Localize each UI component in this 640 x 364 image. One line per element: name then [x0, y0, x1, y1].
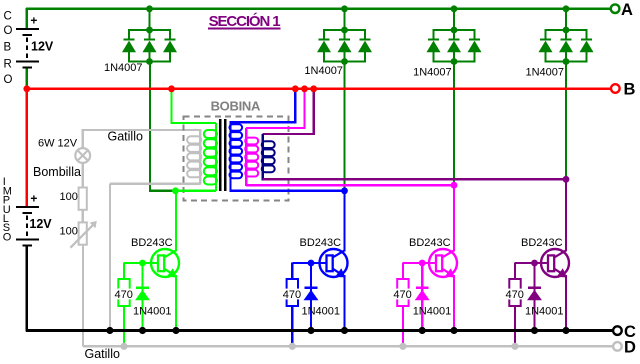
wire diode group D2 down to blue collector node [343, 62, 345, 191]
navy secondary winding [262, 134, 275, 180]
svg-text:1N4007: 1N4007 [104, 62, 143, 74]
battery COBRO 12V plates [16, 28, 39, 30]
label 470 of Q1 (green) [114, 289, 135, 300]
wire blue winding bottom to T2 collector [231, 190, 345, 192]
node base junction of Q3 (magenta) [419, 260, 426, 267]
wire Gatillo horizontal (gray, node Gatillo) [83, 129, 201, 131]
wire diode group D4 down to purple collector node [565, 62, 567, 180]
diode 1N4001 of Q3 (magenta) [415, 263, 430, 331]
wire base of Q4 (purple) [515, 262, 549, 264]
wire battery IMPULSO - to bus C (black) [26, 246, 28, 331]
wire node B to battery IMPULSO + (red) [26, 89, 28, 207]
wire down to T3 collector [453, 185, 455, 251]
svg-text:1N4001: 1N4001 [525, 306, 564, 318]
svg-text:+: + [30, 192, 37, 206]
lamp Bombilla 6W 12V [75, 148, 90, 163]
wire gray winding bottom to bus C [110, 182, 200, 184]
node base junction of Q1 (green) [139, 260, 146, 267]
svg-text:470: 470 [393, 289, 411, 301]
resistor 470 of Q4 (purple) [509, 263, 520, 347]
green primary winding [204, 123, 217, 191]
svg-text:1N4001: 1N4001 [302, 306, 341, 318]
transistor Q4 (purple) BD243C [541, 249, 569, 278]
battery IMPULSO 12V plates [16, 206, 39, 208]
svg-text:1N4001: 1N4001 [413, 306, 452, 318]
diode group D1 (3x 1N4007) [122, 9, 177, 65]
transformer core bars [219, 119, 227, 191]
svg-text:Gatillo: Gatillo [108, 130, 143, 144]
svg-text:O: O [4, 74, 13, 86]
terminal D [613, 342, 622, 351]
wire navy winding bottom to T4 collector (purple) [263, 178, 566, 180]
svg-text:6W 12V: 6W 12V [38, 137, 78, 149]
terminal C [613, 326, 622, 335]
wire green winding bottom to node E [176, 190, 217, 192]
wire down to T4 collector (purple) [565, 179, 567, 251]
svg-text:100: 100 [60, 226, 78, 238]
svg-text:+: + [30, 14, 37, 28]
node T4 collector junction [563, 176, 570, 183]
wire potentiometer to bus D (gray) [82, 245, 84, 347]
blue secondary winding [230, 122, 243, 192]
resistor R1 100 (gray) [79, 188, 87, 210]
wire down to T2 collector [343, 191, 345, 252]
node E (green collector junction) [172, 187, 179, 194]
node base junction of Q2 (blue) [308, 260, 315, 267]
node dots on bus B [23, 85, 30, 92]
diode group D3 (3x 1N4007) [427, 9, 482, 65]
wire Gatillo horizontal over crossing (gray) [144, 129, 157, 131]
wire lamp top to Gatillo line (gray) [82, 129, 84, 149]
diode 1N4001 of Q2 (blue) [304, 263, 319, 331]
transistor Q3 (magenta) BD243C [429, 249, 457, 278]
wire magenta winding bottom to T3 collector [246, 184, 454, 186]
svg-text:1N4001: 1N4001 [133, 306, 172, 318]
diode 1N4001 of Q4 (purple) [527, 263, 542, 331]
transistor Q1 (green) BD243C [151, 249, 179, 278]
wire bus B (node B, red) [26, 87, 611, 90]
node T3 collector junction [451, 182, 458, 189]
diode group D2 (3x 1N4007) [317, 9, 372, 65]
svg-text:100: 100 [60, 191, 78, 203]
potentiometer R2 100 (gray) [70, 221, 96, 248]
wire node B to blue winding top [294, 89, 296, 124]
resistor 470 of Q3 (magenta) [397, 263, 408, 347]
svg-text:12V: 12V [31, 40, 54, 54]
svg-text:BD243C: BD243C [131, 237, 173, 249]
svg-text:O: O [4, 25, 13, 37]
wire emitter of Q4 (purple) to bus C [565, 275, 567, 331]
svg-text:1N4007: 1N4007 [304, 65, 343, 77]
svg-text:BD243C: BD243C [521, 237, 563, 249]
wire base of Q3 (magenta) [403, 262, 437, 264]
svg-text:BOBINA: BOBINA [211, 99, 261, 114]
gray trigger winding [187, 129, 201, 185]
resistor 470 of Q1 (green) [118, 263, 129, 347]
svg-text:BD243C: BD243C [300, 237, 342, 249]
svg-text:BD243C: BD243C [409, 237, 451, 249]
wire bus D (node D / Gatillo, gray) [83, 345, 613, 347]
svg-text:470: 470 [283, 289, 301, 301]
svg-text:12V: 12V [29, 217, 52, 231]
node base junction of Q4 (purple) [531, 260, 538, 267]
wire battery COBRO - to bus B (dark green) [26, 69, 28, 89]
label 470 of Q2 (blue) [282, 289, 303, 300]
svg-text:1N4007: 1N4007 [413, 67, 452, 79]
wire R1 to potentiometer (gray) [82, 210, 84, 223]
svg-text:470: 470 [506, 289, 524, 301]
terminal B [611, 84, 620, 93]
svg-text:B: B [624, 81, 636, 99]
dashed box BOBINA [184, 116, 289, 200]
svg-text:B: B [4, 42, 12, 54]
wire base of Q2 (blue) [292, 262, 327, 264]
terminal A [611, 4, 620, 13]
wire lamp to resistor R1 (gray) [82, 163, 84, 189]
diode 1N4001 of Q1 (green) [135, 263, 150, 331]
node dots on bus D [120, 343, 127, 350]
wire emitter of Q1 (green) to bus C [175, 275, 177, 331]
svg-text:C: C [4, 11, 12, 23]
wire node B to green winding top (bright green) [170, 89, 172, 124]
svg-text:O: O [3, 231, 12, 243]
svg-text:Bombilla: Bombilla [33, 165, 81, 179]
svg-text:Gatillo: Gatillo [85, 347, 120, 361]
label SECCION 1 [208, 12, 281, 30]
wire bus C (node C, black) [26, 329, 613, 332]
wire bus A down to battery COBRO + [26, 8, 28, 29]
wire base of Q1 (green) [124, 262, 159, 264]
wire node B to magenta winding top [303, 89, 305, 129]
node dots on bus C [106, 327, 113, 334]
svg-text:1N4007: 1N4007 [526, 67, 565, 79]
label 470 of Q3 (magenta) [392, 289, 413, 300]
diode group D4 (3x 1N4007) [539, 9, 594, 65]
wire bus A (node A) [26, 8, 611, 10]
svg-text:D: D [624, 339, 636, 357]
wire emitter of Q2 (blue) to bus C [343, 275, 345, 331]
svg-text:R: R [4, 59, 12, 71]
wire emitter of Q3 (magenta) to bus C [453, 275, 455, 331]
node dots on bus A [146, 5, 153, 12]
label 470 of Q4 (purple) [505, 289, 526, 300]
wire node B to navy winding top (purple) [313, 89, 315, 135]
wire gray winding bottom over crossing (gray) [144, 182, 157, 184]
wire diode group D1 to node E (dark green) [149, 62, 151, 192]
magenta secondary winding [245, 128, 258, 186]
wire node E down to T1 collector [175, 191, 177, 252]
svg-text:470: 470 [115, 289, 133, 301]
transistor Q2 (blue) BD243C [320, 249, 348, 278]
svg-text:A: A [621, 1, 633, 19]
svg-text:SECCIÓN 1: SECCIÓN 1 [209, 12, 281, 30]
resistor 470 of Q2 (blue) [287, 263, 298, 347]
node T2 collector junction [341, 187, 348, 194]
wire diode group D3 down to magenta collector node [453, 62, 455, 186]
